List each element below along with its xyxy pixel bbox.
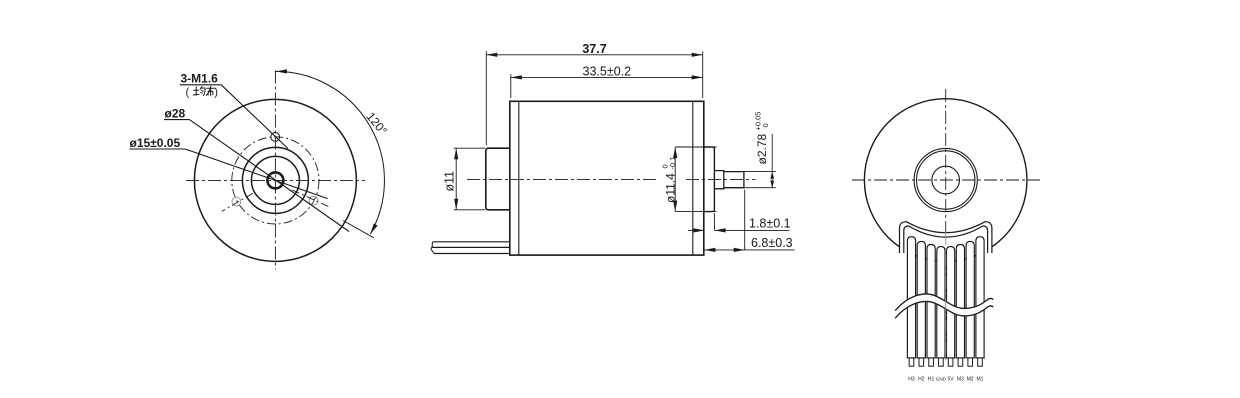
screw hole top [271,133,280,142]
vertical centerline rear (gray, on top) [945,89,947,232]
shaft circle (thick) [267,172,283,188]
svg-text:M1: M1 [977,377,984,383]
dim O11 ext bottom [454,209,485,211]
svg-text:M3: M3 [957,377,964,383]
wire H2 [917,241,925,358]
wire bundle top line [433,241,510,243]
svg-text:ø2.78: ø2.78 [755,133,769,164]
vertical centerline [274,71,276,270]
dim O11 ext top [454,147,485,149]
shaft collar [714,171,723,189]
svg-text:ø11.4: ø11.4 [663,173,677,203]
arrows O11.4 [673,147,677,158]
wire M3 [956,245,964,358]
arrows O11 [454,148,458,159]
inner line right end-bell [692,101,694,255]
dim 33.5 line [511,76,703,78]
break wave band mask [895,294,993,318]
dim 1.8 line left tail [688,229,704,231]
svg-text:ø11: ø11 [443,171,457,192]
svg-text:ø28: ø28 [165,107,186,121]
svg-text:ø15±0.05: ø15±0.05 [130,136,181,150]
svg-text:M2: M2 [967,377,974,383]
screw hole lower-right [309,196,318,205]
rear ring outer [914,148,977,211]
sheath mask [900,222,992,253]
leader line O28 [189,120,349,232]
break wave upper [895,294,993,311]
svg-text:GND: GND [936,377,947,382]
wire labels [908,377,983,383]
sheath inner outline [904,226,988,253]
dim 37.7 extension right [702,51,704,98]
wire bundle break curve [431,242,434,254]
wire GND [937,247,945,358]
svg-text:6.8±0.3: 6.8±0.3 [751,236,793,250]
arrows 37.7 [486,53,497,57]
dim O2.78 ext bottom [744,187,776,189]
arrows 6.8 [704,248,715,252]
rear cap O11.4 [704,147,715,212]
svg-text:-0.1: -0.1 [668,157,677,170]
8 wire loops [907,237,984,358]
connector pins [909,358,982,366]
120 degree dimension arc [275,71,384,234]
wire M1 [976,237,984,358]
dim O11.4 line [674,147,676,212]
dim O2.78 ext top [744,171,776,173]
leader line O15 [185,149,328,199]
radial extension line at arc end [343,221,374,238]
break wave lower [895,301,993,318]
arrows 33.5 [511,75,522,79]
svg-text:0: 0 [761,123,770,127]
dim 37.7 extension left [485,51,487,145]
wire M2 [966,241,974,358]
wire bundle middle line [432,246,510,248]
svg-text:1.8±0.1: 1.8±0.1 [749,217,791,231]
motor body rectangle [510,101,704,255]
bearing housing circle [242,147,308,213]
front boss O11 [486,148,510,210]
radial dash-dot through lower-left hole [222,193,253,211]
dim 6.8 ext (shaft end) [744,190,746,251]
wire bundle bottom line [434,253,510,255]
rear body circle [864,99,1027,262]
dim 6.8 line [704,249,744,251]
underline 3-M1.6 [180,84,222,86]
dim 6.8 underline [745,249,795,251]
dim 37.7 line [486,54,702,56]
wire 5V [947,247,955,358]
svg-text:37.7: 37.7 [582,42,606,56]
wire H3 [907,237,915,358]
wire H1 [927,245,935,358]
svg-text:33.5±0.2: 33.5±0.2 [583,64,632,78]
horizontal centerline [186,179,365,181]
centerline [467,179,659,181]
bolt circle O28 dashed [232,137,319,224]
dim O11 line [455,148,457,210]
motor body outer circle [194,99,356,261]
arrows 1.8 [693,228,704,232]
dim 1.8 ext right [713,213,715,230]
radial dash-dot through lower-right hole [292,190,331,208]
boss circle O15 [251,156,299,204]
screw hole lower-left [232,197,241,206]
dim 1.8 line right + underline [715,229,790,231]
dim O11.4 ext top [675,146,716,148]
rear hub circle [932,166,960,194]
arc arrowhead bottom [370,223,377,234]
dim 33.5 extension left [510,74,512,98]
rear ring inner [917,151,975,209]
underline O15 [130,148,186,150]
svg-text:H3: H3 [908,377,915,383]
arrows O2.78 [770,172,774,179]
svg-text:H2: H2 [918,377,925,383]
svg-text:3-M1.6: 3-M1.6 [181,72,219,86]
horizontal centerline [852,179,1040,181]
shaft [724,172,744,188]
sheath outer outline [900,222,992,253]
underline O28 [164,119,189,121]
leader line 3-M1.6 [221,85,288,149]
svg-text:5V: 5V [948,377,955,383]
svg-text:(: ( [186,87,190,99]
dim O2.78 line [771,134,773,188]
svg-text:H1: H1 [928,377,935,383]
inner line left end-bell [518,101,520,255]
arc arrowhead top [276,69,287,73]
dim O11.4 ext bottom [675,211,716,213]
